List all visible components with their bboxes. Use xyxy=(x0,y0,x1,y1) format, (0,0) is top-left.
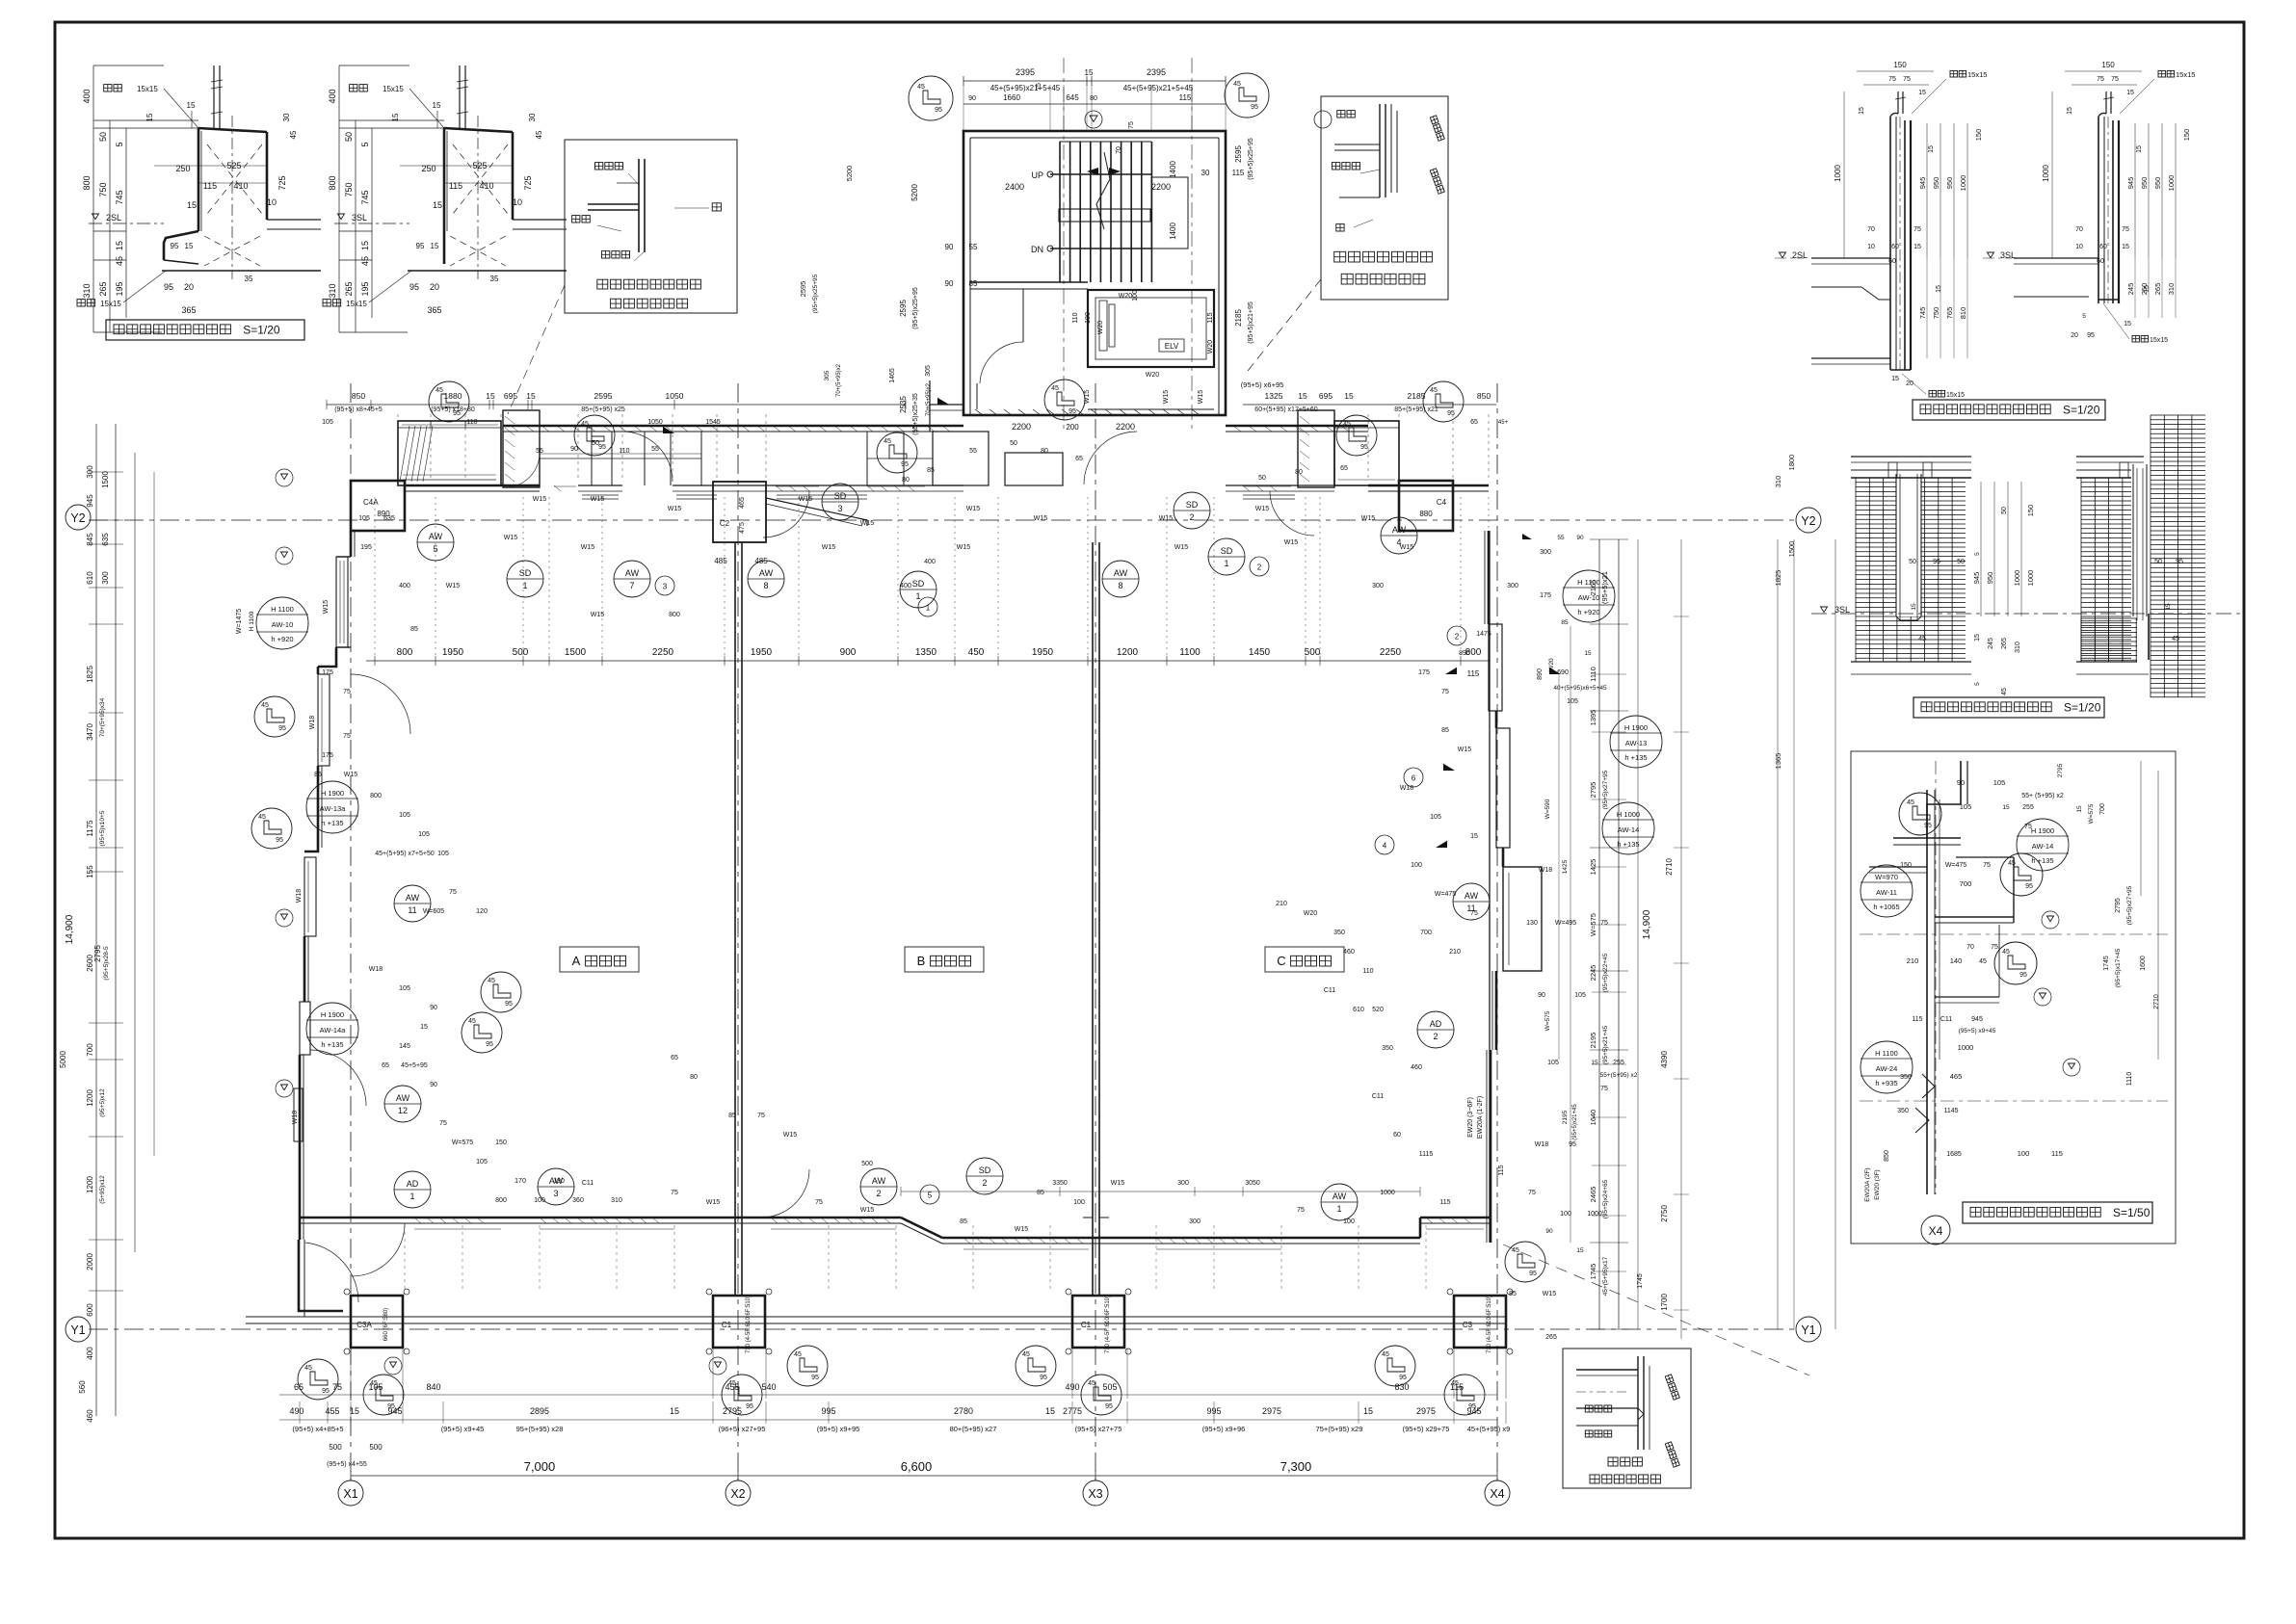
svg-text:65: 65 xyxy=(1340,465,1348,472)
svg-text:150: 150 xyxy=(2101,61,2115,69)
svg-text:55: 55 xyxy=(969,243,978,251)
svg-text:W20: W20 xyxy=(1548,658,1555,671)
svg-text:2SL: 2SL xyxy=(1792,250,1808,260)
svg-text:95: 95 xyxy=(164,282,173,292)
svg-text:(95+5)x21: (95+5)x21 xyxy=(1600,571,1609,604)
svg-text:W=495: W=495 xyxy=(1555,920,1576,927)
svg-text:75: 75 xyxy=(343,733,351,740)
svg-text:H 1000: H 1000 xyxy=(1617,810,1640,819)
svg-text:85+(5+95) x21: 85+(5+95) x21 xyxy=(1394,406,1438,413)
svg-text:15: 15 xyxy=(2124,321,2131,327)
svg-text:15: 15 xyxy=(431,242,439,250)
svg-text:3: 3 xyxy=(663,583,668,591)
svg-text:2795: 2795 xyxy=(93,945,102,962)
svg-text:3SL: 3SL xyxy=(1834,605,1850,615)
svg-text:3350: 3350 xyxy=(1052,1180,1068,1187)
svg-text:15: 15 xyxy=(433,200,442,210)
svg-text:255: 255 xyxy=(1613,1060,1624,1066)
svg-text:400: 400 xyxy=(924,559,936,565)
svg-text:15: 15 xyxy=(145,113,154,121)
svg-text:1: 1 xyxy=(926,604,931,613)
svg-text:1: 1 xyxy=(409,1192,414,1201)
svg-text:75: 75 xyxy=(1528,1190,1536,1196)
svg-text:75: 75 xyxy=(2111,76,2119,83)
svg-text:45: 45 xyxy=(1233,81,1241,88)
svg-text:1825: 1825 xyxy=(1774,570,1782,587)
svg-text:15: 15 xyxy=(1936,285,1942,293)
svg-text:AW: AW xyxy=(1114,568,1128,578)
svg-text:7: 7 xyxy=(629,581,634,590)
svg-text:1600: 1600 xyxy=(2140,956,2147,971)
svg-text:10: 10 xyxy=(267,197,277,207)
svg-text:65: 65 xyxy=(1075,456,1083,462)
svg-text:110: 110 xyxy=(466,419,477,426)
svg-text:AW: AW xyxy=(872,1176,886,1186)
svg-text:75: 75 xyxy=(2097,76,2104,83)
svg-text:AW: AW xyxy=(396,1093,410,1103)
svg-text:65: 65 xyxy=(1470,419,1478,426)
svg-text:100: 100 xyxy=(534,1197,545,1204)
svg-text:45: 45 xyxy=(2001,688,2008,695)
svg-text:2200: 2200 xyxy=(1151,182,1171,192)
svg-text:1145: 1145 xyxy=(1943,1108,1958,1114)
svg-text:2795: 2795 xyxy=(1589,782,1597,799)
svg-text:C11: C11 xyxy=(1324,987,1335,994)
svg-text:5: 5 xyxy=(360,142,370,146)
svg-text:80: 80 xyxy=(1090,95,1097,102)
svg-text:700: 700 xyxy=(86,1043,94,1057)
svg-text:15: 15 xyxy=(2165,603,2172,611)
svg-text:15: 15 xyxy=(670,1406,679,1416)
svg-text:S=1/20: S=1/20 xyxy=(2064,701,2101,715)
svg-text:105: 105 xyxy=(399,812,410,819)
svg-text:75: 75 xyxy=(1600,920,1608,927)
svg-text:55: 55 xyxy=(651,446,659,453)
svg-text:1350: 1350 xyxy=(915,647,937,658)
svg-text:5: 5 xyxy=(433,544,437,554)
svg-text:800: 800 xyxy=(328,175,337,190)
svg-text:950: 950 xyxy=(2153,177,2162,190)
svg-text:H 1100: H 1100 xyxy=(249,611,255,631)
svg-text:105: 105 xyxy=(358,515,370,522)
svg-text:1000: 1000 xyxy=(2042,165,2050,182)
svg-text:7,300: 7,300 xyxy=(1280,1459,1312,1474)
svg-text:1700: 1700 xyxy=(1660,1294,1669,1311)
svg-text:1950: 1950 xyxy=(442,647,464,658)
svg-text:465: 465 xyxy=(1950,1072,1963,1081)
svg-text:45: 45 xyxy=(1382,1351,1389,1358)
svg-text:700: 700 xyxy=(2099,803,2106,815)
svg-text:800: 800 xyxy=(370,793,382,799)
svg-text:105: 105 xyxy=(1430,814,1441,821)
svg-text:(95+5)x25+95: (95+5)x25+95 xyxy=(912,287,919,329)
svg-text:210: 210 xyxy=(1907,956,1919,965)
svg-text:1000: 1000 xyxy=(1587,1211,1602,1218)
svg-text:W15: W15 xyxy=(1163,390,1170,405)
svg-text:(5+95)x12: (5+95)x12 xyxy=(99,1175,106,1204)
svg-text:(95+5) x29+75: (95+5) x29+75 xyxy=(1403,1425,1450,1433)
svg-text:115: 115 xyxy=(449,181,462,191)
svg-text:245: 245 xyxy=(2126,283,2135,296)
svg-text:15: 15 xyxy=(1591,1060,1598,1066)
svg-text:W15: W15 xyxy=(1400,544,1414,551)
svg-text:2975: 2975 xyxy=(1262,1406,1281,1416)
svg-text:W15: W15 xyxy=(1159,515,1174,522)
svg-text:45: 45 xyxy=(1022,1351,1030,1358)
svg-text:890: 890 xyxy=(1537,668,1544,680)
svg-text:95: 95 xyxy=(935,107,942,114)
svg-text:500: 500 xyxy=(513,647,529,658)
svg-text:560: 560 xyxy=(78,1380,87,1394)
svg-text:1450: 1450 xyxy=(1249,647,1271,658)
svg-text:610: 610 xyxy=(86,571,94,585)
svg-text:115: 115 xyxy=(1912,1016,1922,1023)
svg-text:90: 90 xyxy=(570,446,578,453)
svg-text:(95+5) x18+80: (95+5) x18+80 xyxy=(431,406,475,413)
svg-text:1660: 1660 xyxy=(1003,93,1020,102)
svg-text:400: 400 xyxy=(86,1347,94,1360)
svg-text:SD: SD xyxy=(979,1166,991,1175)
svg-text:15: 15 xyxy=(1891,376,1899,382)
svg-text:2975: 2975 xyxy=(1416,1406,1436,1416)
svg-text:W18: W18 xyxy=(1535,1141,1549,1148)
svg-text:75: 75 xyxy=(439,1120,447,1127)
svg-text:80: 80 xyxy=(690,1074,698,1081)
svg-text:SD: SD xyxy=(912,579,925,589)
svg-text:70: 70 xyxy=(1966,944,1974,951)
svg-text:310: 310 xyxy=(2167,283,2176,296)
svg-text:1500: 1500 xyxy=(101,471,110,488)
svg-text:W15: W15 xyxy=(1458,747,1472,753)
svg-text:W15: W15 xyxy=(860,520,875,527)
svg-text:85: 85 xyxy=(1037,1190,1044,1196)
svg-text:75: 75 xyxy=(1983,862,1991,869)
svg-text:100: 100 xyxy=(1073,1199,1085,1206)
svg-text:W15: W15 xyxy=(1361,515,1376,522)
svg-text:20: 20 xyxy=(430,282,439,292)
svg-text:15: 15 xyxy=(115,241,124,250)
svg-text:195: 195 xyxy=(115,281,124,296)
svg-text:115: 115 xyxy=(1498,1165,1505,1175)
svg-text:2710: 2710 xyxy=(1665,858,1674,876)
svg-text:635: 635 xyxy=(101,533,110,546)
svg-text:3050: 3050 xyxy=(1245,1180,1260,1187)
svg-text:95: 95 xyxy=(1251,104,1258,111)
svg-text:105: 105 xyxy=(1567,698,1578,705)
svg-text:745: 745 xyxy=(115,190,124,204)
svg-text:460: 460 xyxy=(1343,949,1355,956)
svg-text:8: 8 xyxy=(1118,581,1122,590)
svg-text:W18: W18 xyxy=(292,1111,299,1125)
svg-text:45: 45 xyxy=(1051,385,1059,392)
svg-text:725: 725 xyxy=(277,175,287,190)
svg-text:40+(5+95)x6+5+45: 40+(5+95)x6+5+45 xyxy=(1553,685,1607,692)
svg-text:410: 410 xyxy=(233,181,248,191)
svg-text:H 1100: H 1100 xyxy=(271,605,294,614)
svg-text:S=1/20: S=1/20 xyxy=(243,324,280,337)
svg-text:95: 95 xyxy=(409,282,419,292)
svg-text:1: 1 xyxy=(915,591,920,601)
svg-text:1200: 1200 xyxy=(86,1089,94,1107)
svg-text:90: 90 xyxy=(1957,778,1965,787)
svg-text:1000: 1000 xyxy=(2026,570,2035,587)
svg-text:455: 455 xyxy=(325,1406,339,1416)
svg-text:H 1900: H 1900 xyxy=(321,789,344,798)
svg-text:150: 150 xyxy=(1893,61,1907,69)
svg-text:15: 15 xyxy=(2136,145,2143,153)
svg-text:B: B xyxy=(917,954,926,968)
svg-text:h +1065: h +1065 xyxy=(1873,903,1899,911)
svg-text:2795: 2795 xyxy=(723,1406,742,1416)
svg-text:950: 950 xyxy=(1945,177,1954,190)
svg-text:85: 85 xyxy=(969,279,978,288)
svg-text:15: 15 xyxy=(526,391,536,401)
svg-text:10: 10 xyxy=(2075,244,2083,250)
svg-text:75: 75 xyxy=(757,1113,765,1119)
svg-text:1: 1 xyxy=(1224,559,1228,568)
svg-text:75: 75 xyxy=(1600,1086,1608,1092)
svg-text:C3A: C3A xyxy=(356,1321,372,1329)
svg-text:105: 105 xyxy=(476,1159,488,1166)
svg-text:1000: 1000 xyxy=(1380,1190,1395,1196)
svg-text:(95+5) x9+95: (95+5) x9+95 xyxy=(817,1425,860,1433)
svg-text:645: 645 xyxy=(1066,93,1079,102)
svg-text:45: 45 xyxy=(535,130,543,139)
svg-text:460: 460 xyxy=(86,1409,94,1423)
svg-text:W15: W15 xyxy=(799,496,813,503)
svg-text:X1: X1 xyxy=(343,1487,357,1501)
svg-text:15: 15 xyxy=(1928,145,1935,153)
svg-text:AW: AW xyxy=(625,568,640,578)
svg-text:45: 45 xyxy=(1979,958,1987,965)
svg-text:265: 265 xyxy=(1545,1334,1557,1341)
svg-text:195: 195 xyxy=(360,544,372,551)
svg-text:250: 250 xyxy=(2140,283,2149,296)
svg-text:AW: AW xyxy=(759,568,774,578)
svg-text:400: 400 xyxy=(82,89,92,103)
svg-text:W20: W20 xyxy=(1304,910,1318,917)
svg-text:45: 45 xyxy=(304,1365,312,1372)
svg-text:800: 800 xyxy=(397,647,413,658)
svg-text:2185: 2185 xyxy=(1234,309,1243,327)
svg-text:45: 45 xyxy=(488,978,495,984)
svg-text:55+(5+95) x2: 55+(5+95) x2 xyxy=(1600,1072,1638,1079)
svg-text:W=575: W=575 xyxy=(2088,803,2095,824)
svg-text:75: 75 xyxy=(671,1190,678,1196)
svg-text:15: 15 xyxy=(2002,804,2010,811)
svg-text:95: 95 xyxy=(416,242,425,250)
svg-text:W15: W15 xyxy=(323,600,330,615)
svg-text:X3: X3 xyxy=(1088,1487,1102,1501)
svg-text:95: 95 xyxy=(1360,444,1368,451)
svg-text:95: 95 xyxy=(1933,559,1940,565)
svg-text:105: 105 xyxy=(368,1382,383,1392)
svg-text:90: 90 xyxy=(1576,535,1584,541)
svg-text:15: 15 xyxy=(1298,391,1307,401)
svg-text:2710: 2710 xyxy=(2153,994,2160,1009)
svg-text:45+(5+95) x7+5+50: 45+(5+95) x7+5+50 xyxy=(375,851,435,857)
svg-text:SD: SD xyxy=(1221,546,1233,556)
svg-text:840: 840 xyxy=(426,1382,440,1392)
svg-text:175: 175 xyxy=(322,669,333,676)
svg-text:65: 65 xyxy=(294,1382,303,1392)
svg-text:200: 200 xyxy=(1066,423,1079,432)
svg-text:60: 60 xyxy=(1393,1132,1401,1139)
svg-text:20: 20 xyxy=(2071,332,2078,339)
svg-text:W18: W18 xyxy=(1539,867,1553,874)
svg-text:765: 765 xyxy=(1945,307,1954,320)
svg-text:540: 540 xyxy=(761,1382,776,1392)
svg-text:50: 50 xyxy=(1909,559,1916,565)
svg-text:80: 80 xyxy=(902,477,910,484)
svg-text:2780: 2780 xyxy=(954,1406,973,1416)
svg-text:45: 45 xyxy=(1088,1380,1095,1387)
svg-text:W18: W18 xyxy=(309,716,316,730)
svg-text:C1: C1 xyxy=(722,1321,732,1329)
svg-text:W=1475: W=1475 xyxy=(236,609,243,634)
svg-text:2: 2 xyxy=(1189,512,1194,522)
svg-text:45: 45 xyxy=(115,256,124,266)
svg-text:95: 95 xyxy=(505,1001,513,1008)
svg-text:EW20A (1-2F): EW20A (1-2F) xyxy=(1477,1096,1484,1139)
svg-text:AW-13a: AW-13a xyxy=(320,804,347,813)
svg-text:75: 75 xyxy=(815,1199,823,1206)
svg-text:95: 95 xyxy=(2087,332,2095,339)
svg-text:3: 3 xyxy=(837,504,842,513)
svg-text:95: 95 xyxy=(2025,883,2033,890)
svg-text:EW20 (3F): EW20 (3F) xyxy=(1874,1169,1881,1199)
svg-text:1115: 1115 xyxy=(1419,1151,1434,1158)
svg-text:1425: 1425 xyxy=(1562,859,1569,874)
svg-text:90: 90 xyxy=(430,1005,437,1011)
svg-text:1000: 1000 xyxy=(1958,1043,1974,1052)
svg-text:950: 950 xyxy=(2140,177,2149,190)
svg-text:105: 105 xyxy=(1574,992,1586,999)
svg-text:45: 45 xyxy=(2172,636,2179,642)
svg-text:300: 300 xyxy=(1177,1180,1189,1187)
svg-text:AW-14a: AW-14a xyxy=(320,1026,347,1035)
svg-text:75: 75 xyxy=(1297,1207,1305,1214)
svg-text:210: 210 xyxy=(1276,901,1287,907)
svg-text:105: 105 xyxy=(437,851,449,857)
svg-text:695: 695 xyxy=(1319,391,1333,401)
svg-text:UP: UP xyxy=(1031,170,1043,180)
svg-text:85+(5+95) x25: 85+(5+95) x25 xyxy=(581,406,625,413)
svg-text:15: 15 xyxy=(2076,805,2083,813)
svg-text:115: 115 xyxy=(2051,1149,2063,1158)
svg-text:85: 85 xyxy=(960,1218,967,1225)
svg-text:(95+5) x27+75: (95+5) x27+75 xyxy=(1075,1425,1122,1433)
svg-text:(95+5)x22+45: (95+5)x22+45 xyxy=(1602,953,1609,992)
svg-text:490: 490 xyxy=(289,1406,303,1416)
svg-text:155: 155 xyxy=(86,865,94,878)
svg-text:14,900: 14,900 xyxy=(1642,909,1652,939)
svg-text:15: 15 xyxy=(187,101,196,110)
svg-text:X2: X2 xyxy=(730,1487,745,1501)
svg-text:85: 85 xyxy=(728,1113,736,1119)
svg-text:W15: W15 xyxy=(1034,515,1048,522)
svg-text:15: 15 xyxy=(1911,603,1917,611)
svg-text:300: 300 xyxy=(1507,583,1518,589)
svg-text:2895: 2895 xyxy=(530,1406,549,1416)
svg-text:80: 80 xyxy=(1295,469,1303,476)
svg-text:(95+5)x17+45: (95+5)x17+45 xyxy=(2115,948,2122,987)
svg-text:80: 80 xyxy=(1041,448,1048,455)
svg-text:505: 505 xyxy=(1102,1382,1117,1392)
svg-text:5: 5 xyxy=(115,142,124,146)
svg-text:750: 750 xyxy=(98,182,108,196)
svg-text:W15: W15 xyxy=(533,496,547,503)
svg-text:75: 75 xyxy=(1991,944,1998,951)
svg-text:2595: 2595 xyxy=(1234,145,1243,163)
svg-text:15x15: 15x15 xyxy=(137,85,158,93)
svg-text:945: 945 xyxy=(2126,177,2135,190)
svg-text:Y1: Y1 xyxy=(70,1323,85,1337)
svg-text:300: 300 xyxy=(1189,1218,1201,1225)
svg-text:2795: 2795 xyxy=(2115,898,2122,913)
svg-text:800: 800 xyxy=(495,1197,507,1204)
svg-text:1500: 1500 xyxy=(1787,541,1796,558)
svg-text:45: 45 xyxy=(435,387,443,394)
svg-text:1050: 1050 xyxy=(647,419,663,426)
svg-text:105: 105 xyxy=(1960,802,1972,811)
svg-text:EW20A (2F): EW20A (2F) xyxy=(1864,1167,1871,1201)
svg-text:(95+5)x25+95: (95+5)x25+95 xyxy=(812,274,819,313)
svg-text:310: 310 xyxy=(82,283,92,298)
svg-text:15x15: 15x15 xyxy=(383,85,404,93)
svg-text:105: 105 xyxy=(322,419,333,426)
svg-text:95: 95 xyxy=(1529,1270,1537,1277)
svg-text:95: 95 xyxy=(811,1375,819,1381)
svg-text:4: 4 xyxy=(1383,842,1387,851)
svg-text:110: 110 xyxy=(619,448,629,455)
svg-text:95: 95 xyxy=(1105,1403,1113,1410)
svg-text:265: 265 xyxy=(98,281,108,296)
svg-text:450: 450 xyxy=(968,647,985,658)
svg-text:150: 150 xyxy=(2182,129,2191,142)
svg-text:115: 115 xyxy=(1232,169,1245,177)
svg-text:890: 890 xyxy=(1459,650,1470,657)
svg-text:250: 250 xyxy=(175,164,190,173)
svg-text:210: 210 xyxy=(1449,949,1461,956)
svg-text:2: 2 xyxy=(876,1189,881,1198)
svg-text:20: 20 xyxy=(1906,380,1913,387)
svg-text:W15: W15 xyxy=(591,496,605,503)
svg-text:2750: 2750 xyxy=(1660,1205,1669,1222)
svg-text:95: 95 xyxy=(1924,823,1932,829)
svg-text:15: 15 xyxy=(1344,391,1354,401)
svg-text:100: 100 xyxy=(1343,1218,1355,1225)
svg-text:AW-13: AW-13 xyxy=(1625,739,1648,747)
svg-text:90: 90 xyxy=(430,1082,437,1088)
svg-text:h +135: h +135 xyxy=(2031,856,2053,865)
svg-text:45: 45 xyxy=(884,438,891,445)
svg-text:850: 850 xyxy=(352,391,365,401)
svg-text:W15: W15 xyxy=(668,506,682,512)
svg-text:W=575: W=575 xyxy=(452,1139,473,1146)
svg-text:W=575: W=575 xyxy=(1544,1010,1551,1031)
svg-text:85: 85 xyxy=(410,626,418,633)
svg-text:725: 725 xyxy=(523,175,533,190)
svg-text:75: 75 xyxy=(2024,824,2032,830)
svg-text:X4: X4 xyxy=(1929,1224,1943,1238)
svg-text:1745: 1745 xyxy=(2103,956,2110,971)
svg-text:2: 2 xyxy=(1455,633,1460,642)
svg-text:2: 2 xyxy=(1257,563,1262,572)
svg-text:45: 45 xyxy=(917,84,925,91)
svg-text:660 (6F:580): 660 (6F:580) xyxy=(383,1308,389,1341)
svg-text:1500: 1500 xyxy=(565,647,587,658)
